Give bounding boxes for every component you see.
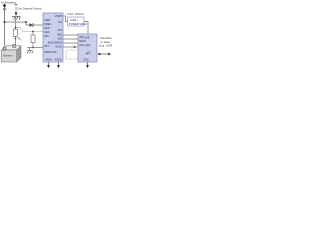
svg-text:µC: µC bbox=[86, 50, 91, 55]
svg-text:MISO/MOSI: MISO/MOSI bbox=[48, 40, 62, 44]
pin labels bottom U1 bbox=[45, 58, 62, 62]
regulator U2 low-power vreg bbox=[68, 17, 87, 26]
svg-text:Car Chassis Ground: Car Chassis Ground bbox=[17, 6, 42, 10]
svg-text:VSS: VSS bbox=[84, 57, 89, 61]
IC U1 battery-sensor IC bbox=[43, 13, 63, 62]
diode D1 bbox=[30, 23, 34, 27]
svg-text:NTC: NTC bbox=[44, 44, 49, 48]
svg-text:VDDP: VDDP bbox=[55, 14, 62, 18]
svg-text:SCLK: SCLK bbox=[55, 44, 62, 48]
wire shunt branch vertical bbox=[15, 17, 17, 29]
microcontroller U3 bbox=[78, 34, 97, 62]
svg-text:LOW I: LOW I bbox=[70, 18, 78, 22]
SPI group box bbox=[66, 50, 80, 59]
ground arrow VSSA bbox=[48, 62, 50, 65]
svg-text:3.3V, 150mA: 3.3V, 150mA bbox=[67, 12, 84, 16]
svg-text:VSSA: VSSA bbox=[45, 58, 52, 62]
svg-text:LIN: LIN bbox=[58, 20, 62, 24]
wire SPI MISO bbox=[63, 38, 78, 40]
svg-text:MISO: MISO bbox=[79, 39, 86, 43]
svg-text:SHG: SHG bbox=[44, 30, 50, 34]
wire host bus double arrow bbox=[97, 53, 111, 56]
node R1 top bbox=[32, 31, 34, 33]
wire diode to IC VBAT pin bbox=[33, 24, 43, 26]
resistor RS shunt bbox=[13, 29, 17, 36]
ground arrow VSSD bbox=[58, 62, 60, 65]
svg-text:VDD: VDD bbox=[84, 36, 90, 40]
svg-text:VBAT: VBAT bbox=[44, 18, 51, 22]
svg-text:VSSD: VSSD bbox=[55, 58, 62, 62]
wire R1 bottom stub bbox=[32, 43, 34, 48]
svg-text:VREG: VREG bbox=[44, 22, 51, 26]
wire drop to diode bbox=[26, 22, 30, 25]
node sense tap above shunt bbox=[15, 27, 17, 29]
battery - terminal bbox=[13, 44, 16, 47]
svg-text:AIN: AIN bbox=[44, 34, 48, 38]
svg-text:(e.g. CAN): (e.g. CAN) bbox=[99, 44, 112, 48]
battery B1 (car battery, 3D) bbox=[1, 44, 21, 62]
wire VDDP to regulator bbox=[63, 16, 68, 22]
wire R1 top stub bbox=[32, 32, 34, 36]
svg-text:IRQ: IRQ bbox=[57, 32, 62, 36]
wire SPI IRQ bbox=[63, 34, 78, 36]
node R1 to ground bus bbox=[32, 47, 34, 49]
svg-text:VBACKUP: VBACKUP bbox=[44, 50, 57, 54]
wire harness ground lead bbox=[15, 5, 17, 13]
node on SCLK wire bbox=[74, 46, 76, 48]
wire sense line to IC bbox=[16, 28, 44, 32]
wire BAT+ rail bbox=[4, 7, 6, 46]
resistor R1 bbox=[31, 35, 35, 43]
chassis ground symbol (bus) bbox=[27, 48, 33, 54]
pin labels left side U1 bbox=[44, 18, 57, 54]
svg-text:To Harness: To Harness bbox=[1, 1, 17, 5]
svg-text:POWER VREG: POWER VREG bbox=[69, 22, 87, 26]
node below shunt bbox=[15, 38, 17, 40]
wire ground bus to IC GND bbox=[27, 47, 43, 49]
svg-text:CLK (opt): CLK (opt) bbox=[79, 43, 90, 47]
svg-text:IRQ: IRQ bbox=[79, 35, 84, 39]
node junction on BAT+ rail bbox=[4, 21, 6, 23]
svg-text:SDI: SDI bbox=[58, 36, 63, 40]
wire shunt to battery minus terminal bbox=[15, 36, 17, 44]
wire regulator to uC VDD bbox=[84, 22, 88, 35]
wire SPI SCLK bbox=[63, 46, 78, 48]
svg-text:INT: INT bbox=[58, 28, 63, 32]
node corner dot bbox=[25, 21, 27, 23]
connector J1 off-page arrow to harness bbox=[3, 3, 6, 10]
svg-text:Battery: Battery bbox=[3, 54, 13, 58]
ground arrow uC VSS bbox=[87, 62, 89, 65]
chassis ground symbol (top) bbox=[12, 17, 20, 20]
label Interface to Host bbox=[99, 36, 113, 48]
battery + terminal bbox=[3, 47, 6, 50]
wire SPI MOSI bbox=[63, 42, 78, 44]
wire VBAT feed horizontal bbox=[5, 21, 27, 23]
arrow to chassis ground bbox=[15, 12, 18, 16]
pin labels right side U1 bbox=[48, 14, 62, 48]
svg-text:SHS: SHS bbox=[44, 26, 50, 30]
